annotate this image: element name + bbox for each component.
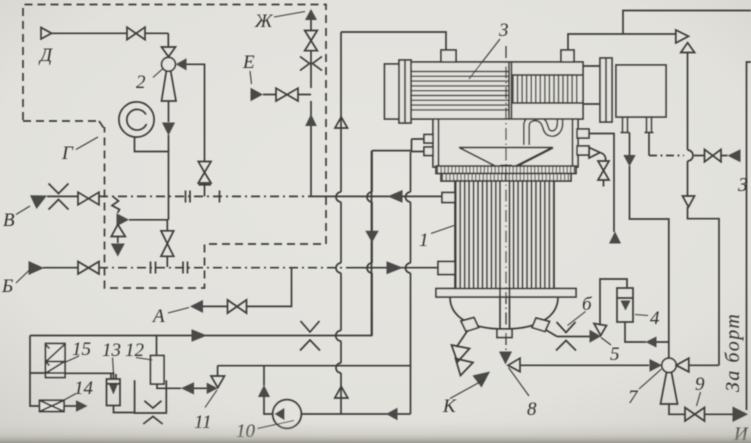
- arrow right on distillate line: [192, 329, 208, 341]
- line B solid part to vessel stub: [350, 267, 438, 269]
- arrow up on Zh riser: [305, 114, 317, 126]
- pointer 10: [258, 421, 295, 429]
- hose coupling on line Zh: [300, 57, 322, 71]
- valve above valve 2: [162, 47, 176, 57]
- vessel centre axis: [505, 46, 507, 352]
- filter 13 funnel: [109, 384, 118, 395]
- orifice 6 marks: [556, 322, 576, 351]
- svg-text:1: 1: [419, 230, 429, 251]
- valve 8 upper cone: [499, 352, 512, 365]
- pointer 6: [568, 312, 586, 326]
- pointer A: [168, 308, 189, 314]
- chevron inside funnel box: [144, 401, 161, 408]
- valve on line B (bowtie): [78, 262, 99, 275]
- drum left tube flange: [399, 60, 411, 123]
- svg-text:15: 15: [72, 339, 91, 360]
- funnel apex knot: [500, 165, 512, 173]
- hop arcs on column x410: [406, 192, 411, 273]
- drum right section vertical fins: [513, 75, 577, 103]
- pointer 12: [136, 358, 153, 361]
- drain funnel box: [135, 380, 167, 413]
- pump 10 casing: [273, 400, 302, 429]
- drum horizontal tube lines: [411, 72, 509, 110]
- bundle inlet stub lower (line B feed): [438, 262, 455, 275]
- cooler drain pipe to valve 7: [630, 133, 669, 359]
- filter 13 inlet union ticks: [111, 374, 116, 379]
- svg-text:5: 5: [610, 344, 620, 365]
- filter 13 body: [107, 379, 121, 406]
- vessel body 1 shell: [433, 112, 578, 167]
- drum top nozzle left: [441, 50, 456, 62]
- pointer 15: [65, 356, 80, 363]
- distillate line y335: [30, 151, 372, 336]
- dome left drain nozzle: [461, 318, 479, 332]
- valve on line E (bowtie): [276, 88, 298, 101]
- separator funnel inside body: [459, 148, 553, 182]
- pipe: steam line Zh riser: [310, 20, 312, 196]
- line V (brine overboard main, dash-dot): [47, 195, 78, 197]
- vessel body inner wall lines: [439, 112, 573, 167]
- pipe: valve 2 drop to brine main: [168, 101, 170, 220]
- valve 7 open right triangle: [676, 358, 689, 372]
- vapour head valve open triangles: [676, 30, 695, 53]
- arrow down on valve 2 drop: [162, 123, 175, 136]
- valve on line D (open bowtie): [127, 27, 145, 39]
- riser x689 jog to x719: [688, 207, 720, 365]
- cooler drain pipe to line Z: [648, 133, 650, 156]
- reduction valve open triangle: [111, 225, 125, 237]
- drum centre divider: [509, 62, 512, 119]
- pointer 1: [431, 226, 454, 234]
- arrow left on line V: [388, 190, 403, 203]
- orifice marks on distillate line: [300, 321, 320, 351]
- valve 7 three-way cock body: [662, 358, 676, 372]
- pointer 13: [113, 358, 114, 374]
- steam branch to top edge: [623, 11, 751, 35]
- valve 11 drop: [217, 366, 219, 376]
- pointer K: [450, 380, 485, 399]
- line B union ticks: [151, 262, 188, 274]
- drum top nozzle right: [561, 50, 574, 62]
- line Z to valve and arrow: [694, 155, 728, 157]
- arrow V discharge: [30, 195, 47, 209]
- arrow K to bilge: [473, 372, 491, 388]
- valve 11 inlet open triangle: [211, 376, 225, 388]
- valve on line Z (bowtie): [705, 150, 722, 162]
- ship side hull line: [747, 62, 751, 410]
- vessel right vent line: [589, 134, 614, 233]
- chevron below funnel box: [143, 417, 162, 425]
- pointer 14: [56, 394, 76, 405]
- valve 11 outlet triangle: [207, 383, 218, 394]
- svg-text:А: А: [151, 306, 165, 327]
- rotameter 12 stub to distillate line: [156, 336, 158, 356]
- drum right section band: [512, 75, 584, 103]
- bottom dome: [450, 297, 558, 329]
- arrow down on riser x372: [365, 231, 378, 243]
- separator funnel right arm (thick): [506, 148, 553, 172]
- open flow triangle on riser x341 lower: [335, 387, 348, 399]
- rotameter 12 body: [151, 356, 165, 385]
- central pipe stub box: [497, 329, 512, 338]
- line A drain: [203, 268, 292, 307]
- pipe: vapour line to drum top left nozzle: [341, 32, 446, 50]
- pointer Zh: [274, 12, 305, 18]
- drum right tube flange: [600, 58, 612, 122]
- valve on line A (bowtie): [228, 300, 247, 313]
- valve on line Zh (vertical bowtie): [305, 31, 318, 51]
- arrow A discharge: [190, 300, 203, 313]
- bundle inlet stub upper (line B): [442, 193, 455, 203]
- arrow down reduction drain: [111, 244, 125, 257]
- svg-text:Ж: Ж: [254, 11, 274, 32]
- arrow right line Z overboard: [728, 149, 741, 162]
- hop arcs on riser x372: [367, 192, 372, 273]
- pipe: body left manifold line: [372, 150, 412, 152]
- condensate column x410 with hops: [410, 152, 412, 414]
- arrow B feed: [29, 261, 45, 275]
- pointer 3: [469, 39, 500, 79]
- pump impeller arrow: [275, 408, 285, 421]
- svg-text:4: 4: [650, 308, 660, 329]
- hop arc on riser x689 at line Z: [688, 150, 694, 161]
- line Z overboard (dash-dot): [649, 155, 684, 157]
- valve 2 cone skirt: [162, 71, 177, 101]
- box 14 with cross: [40, 400, 65, 411]
- valve on V-line branch (vertical bowtie): [161, 231, 174, 256]
- pump suction pipe y414: [301, 413, 410, 415]
- hop arcs on riser x341: [336, 192, 341, 373]
- body left nozzle manifold: [412, 139, 425, 152]
- reduction valve filled cone: [117, 213, 130, 226]
- pipe: water meter loop: [135, 137, 169, 152]
- pipe: line E branch: [263, 94, 311, 96]
- line B (feed water main, dash-dot): [43, 267, 78, 269]
- valve 2 right inlet triangle: [176, 58, 187, 70]
- heating tube bundle: [455, 181, 554, 291]
- svg-text:12: 12: [125, 340, 145, 361]
- open arrow D start: [41, 28, 52, 40]
- funnels on dome left drain: [452, 345, 474, 376]
- pointer 5: [601, 338, 611, 346]
- valve 8 open outlet triangle: [508, 358, 520, 372]
- svg-text:2: 2: [136, 72, 146, 93]
- line V solid part to vessel stub: [310, 195, 442, 197]
- drain from dome right nozzle to orifice 6: [546, 330, 590, 337]
- brine drain from dome left nozzle: [457, 330, 469, 347]
- pointer B: [16, 270, 30, 283]
- svg-text:Е: Е: [242, 52, 255, 73]
- bottom page shadow: [0, 421, 751, 443]
- lower tube plate band: [441, 174, 571, 182]
- excess steam line over drum: [568, 34, 676, 50]
- arrow I discharge: [733, 407, 749, 423]
- svg-text:7: 7: [628, 387, 639, 408]
- pipe: valve 11 outlet to funnel 12: [157, 384, 207, 388]
- sea suction strainer marks on line V: [49, 184, 69, 210]
- dome right drain nozzle: [532, 318, 550, 332]
- bottom flange: [436, 289, 576, 298]
- svg-text:3: 3: [498, 20, 509, 41]
- pointer 7: [639, 369, 662, 389]
- box 15 to filter 13 pipe: [65, 373, 114, 379]
- water meter inner ring: [127, 109, 147, 130]
- condenser drum 3 shell: [411, 62, 583, 119]
- drum right neck: [583, 66, 600, 104]
- valve 5 riser to flow indicator 4: [600, 279, 627, 324]
- pipe: valve 2 right arm riser: [186, 64, 205, 196]
- arrow left on pump suction: [386, 408, 398, 421]
- valve 7 left inlet triangle: [650, 359, 663, 372]
- pipe: line D to valve 2: [52, 33, 169, 47]
- vapour riser x341 with hops: [340, 32, 342, 414]
- air vent cock on right nozzle: [589, 148, 606, 162]
- arrow down on cooler drain: [623, 155, 635, 167]
- arrow left to rotameter 12: [181, 382, 194, 394]
- svg-text:13: 13: [102, 340, 121, 361]
- swan-neck vapour pipe inside body: [527, 109, 561, 145]
- arrow on Zh top: [305, 9, 317, 20]
- arrow out of box 14: [76, 400, 88, 412]
- pointer 4: [635, 315, 648, 316]
- pointer 11: [205, 390, 217, 408]
- valve 7 right arm: [689, 364, 719, 366]
- arrow up on pump outlet riser: [258, 385, 270, 397]
- body left nozzles: [424, 135, 433, 144]
- valve 5 open outlet triangle: [594, 324, 607, 336]
- svg-text:б: б: [582, 294, 593, 315]
- flow indicator 4 body: [617, 288, 633, 322]
- distillate loop line from box 15: [30, 336, 46, 407]
- svg-text:В: В: [3, 210, 15, 231]
- svg-text:З: З: [738, 174, 748, 196]
- drum left end cover: [385, 64, 400, 119]
- box 15 control device: [46, 344, 66, 378]
- open triangle end of riser x689: [683, 196, 695, 207]
- svg-text:Г: Г: [61, 143, 74, 164]
- pump outlet riser: [264, 366, 273, 414]
- svg-text:За борт: За борт: [722, 313, 744, 392]
- cooler drain pins: [621, 117, 654, 133]
- riser x372 with hops: [371, 151, 373, 336]
- valve on valve-2 arm riser (vertical bowtie): [198, 162, 211, 185]
- valve 7 cone skirt: [661, 372, 678, 404]
- arrow left to indicator 4: [646, 337, 657, 348]
- line V union ticks: [186, 191, 220, 203]
- central brine pipe: [500, 181, 510, 329]
- arrow E feed: [251, 88, 264, 101]
- vapour escape riser x689: [687, 53, 689, 197]
- pointer 8: [509, 368, 530, 397]
- pointer V: [16, 206, 30, 215]
- pipe: drain valve to line B feed: [166, 220, 168, 267]
- pointer 2: [153, 69, 163, 78]
- pointer G: [76, 137, 98, 150]
- svg-text:8: 8: [527, 399, 537, 420]
- arrow right on line B: [387, 261, 404, 274]
- valve 9 (bowtie): [685, 408, 705, 422]
- water meter circle: [119, 102, 154, 137]
- pointer E: [250, 71, 252, 84]
- condensate cooler box: [616, 65, 666, 117]
- svg-text:К: К: [442, 396, 457, 417]
- svg-text:Б: Б: [1, 276, 13, 297]
- open flow triangle on riser x341 upper: [335, 117, 348, 128]
- pointer 9: [697, 392, 701, 406]
- dashed plant boundary: [23, 5, 326, 289]
- body right nozzles: [577, 129, 589, 138]
- arrow up vessel vent end: [609, 232, 621, 244]
- arrow right into valve 5: [590, 330, 602, 343]
- drain from evaporator bottom: valve 8 to valve 7: [520, 364, 649, 366]
- valve 2 three-way cock body: [162, 57, 176, 71]
- upper tube plate band: [436, 166, 576, 174]
- svg-text:14: 14: [74, 378, 94, 399]
- box 14 outlet: [64, 405, 76, 407]
- pump suction header y366: [218, 365, 411, 367]
- valve 7 bottom outlet to valve 9: [669, 404, 733, 414]
- pipe: reduction valve branch: [112, 197, 169, 243]
- flow indicator 4 outlet: [625, 322, 669, 342]
- svg-text:Д: Д: [38, 45, 53, 66]
- flow indicator 4 float: [621, 301, 631, 311]
- filter 13 drain to funnel box: [114, 406, 135, 413]
- svg-text:9: 9: [695, 374, 705, 395]
- pump impeller arrow redrawn over casing: [275, 408, 285, 421]
- valve on line V (bowtie): [78, 192, 99, 205]
